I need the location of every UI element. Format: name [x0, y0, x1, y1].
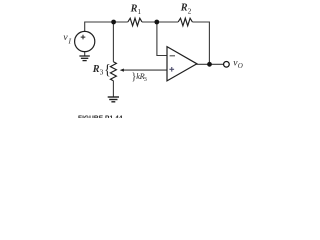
svg-text:{: { — [104, 62, 111, 78]
svg-text:3: 3 — [144, 76, 147, 83]
svg-text:O: O — [238, 62, 243, 70]
svg-text:I: I — [68, 37, 72, 46]
svg-text:FIGURE P1.44: FIGURE P1.44 — [78, 115, 123, 118]
